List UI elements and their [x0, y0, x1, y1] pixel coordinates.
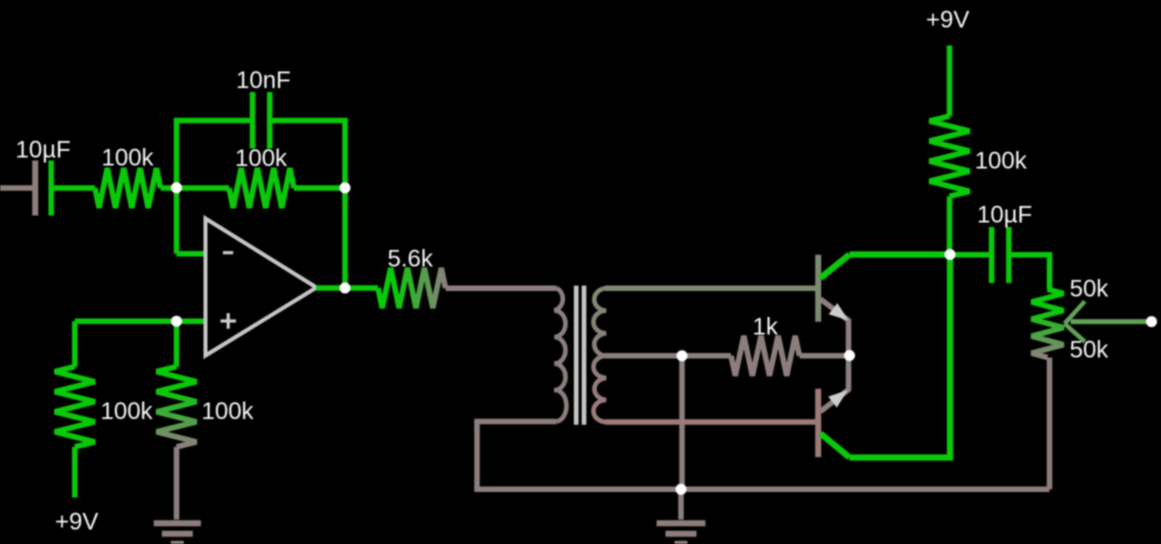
- svg-text:1k: 1k: [753, 314, 779, 341]
- svg-text:10nF: 10nF: [236, 67, 291, 94]
- svg-text:100k: 100k: [975, 148, 1028, 175]
- svg-text:+9V: +9V: [926, 7, 969, 34]
- svg-text:10µF: 10µF: [16, 137, 71, 164]
- svg-text:100k: 100k: [235, 145, 288, 172]
- svg-text:100k: 100k: [202, 398, 255, 425]
- svg-text:10µF: 10µF: [977, 202, 1032, 229]
- svg-text:5.6k: 5.6k: [388, 246, 434, 273]
- svg-text:100k: 100k: [101, 398, 154, 425]
- svg-text:+9V: +9V: [55, 509, 98, 536]
- svg-text:50k: 50k: [1070, 337, 1110, 364]
- svg-text:50k: 50k: [1070, 276, 1110, 303]
- svg-text:100k: 100k: [102, 145, 155, 172]
